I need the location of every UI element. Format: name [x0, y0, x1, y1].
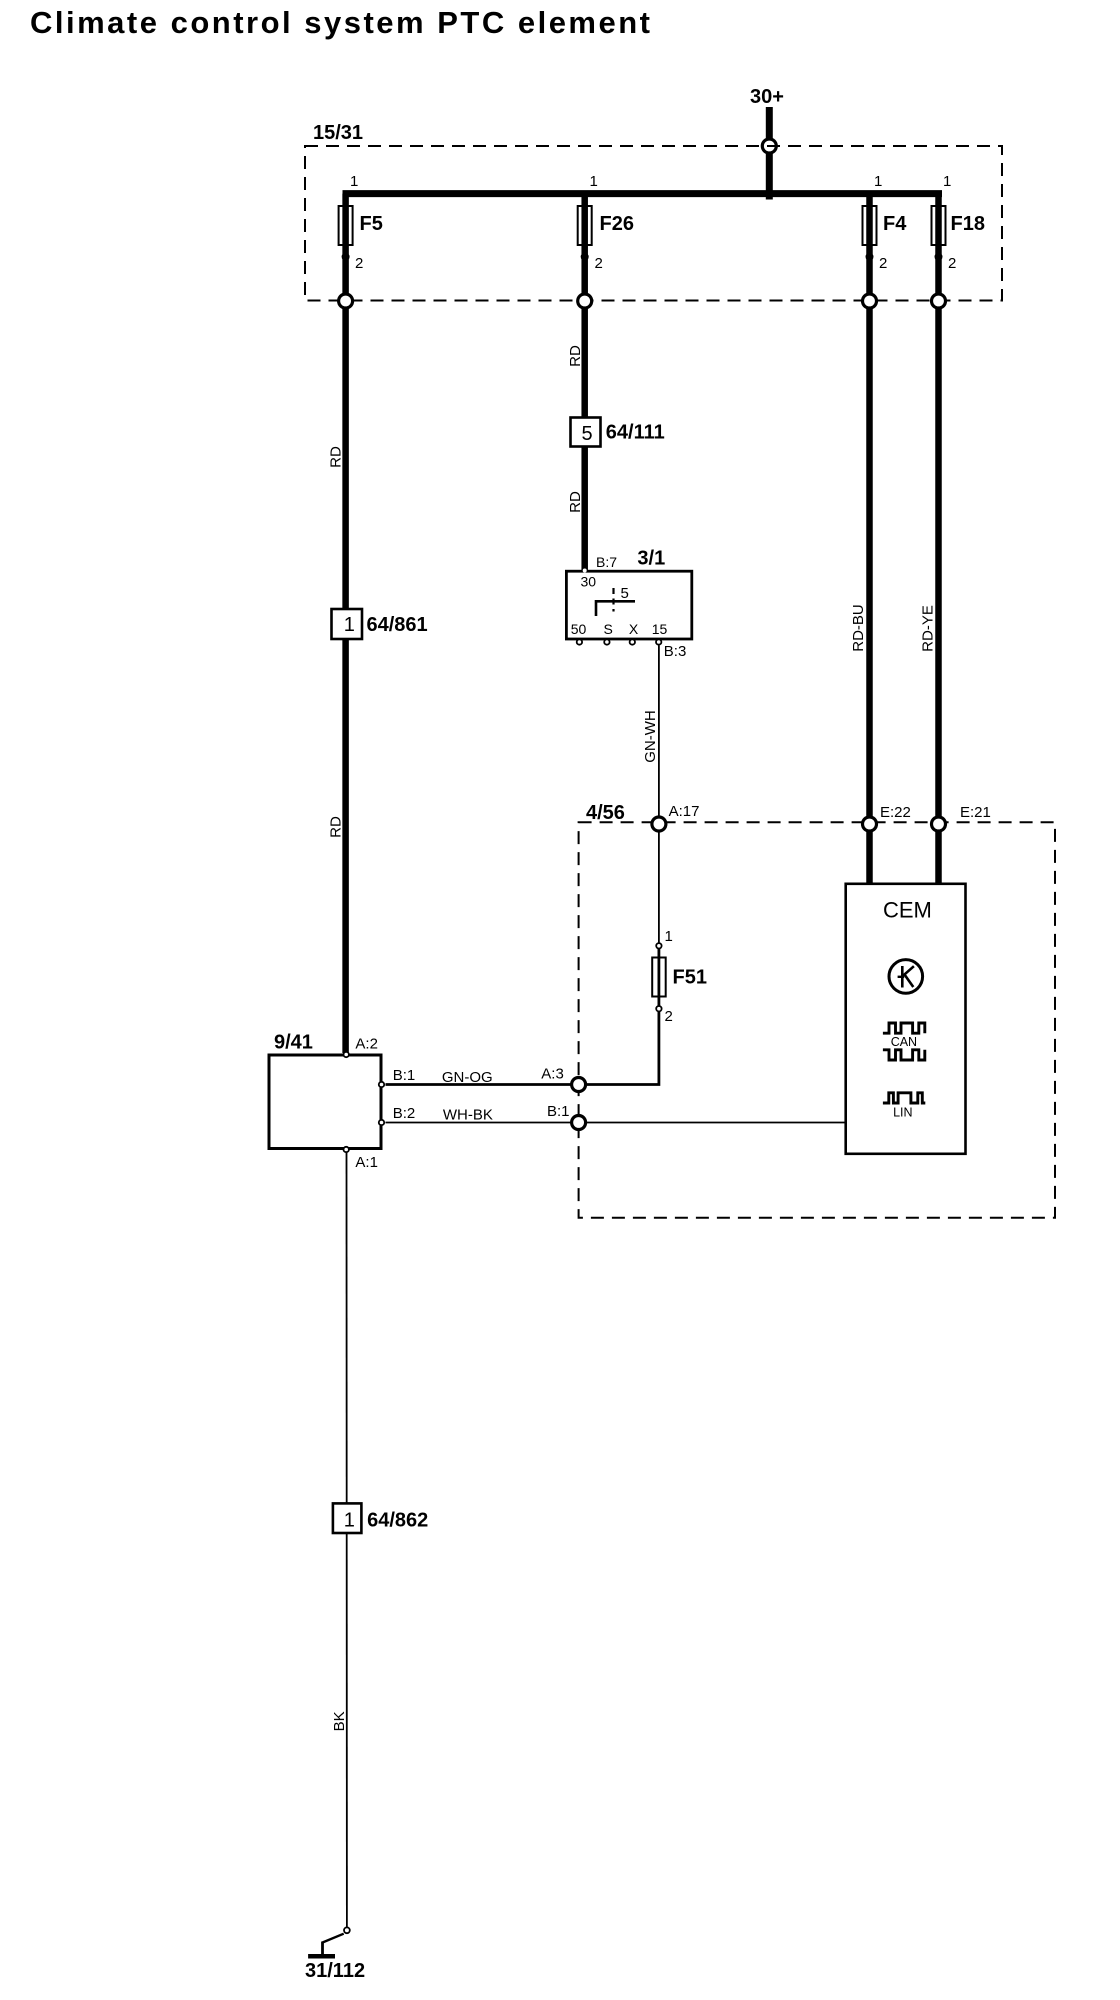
node A:3: [572, 1078, 586, 1092]
wire GN-WH from relay pin 15: [658, 646, 660, 944]
ground 31/112: [305, 1927, 365, 1982]
node F4 connector: [863, 294, 877, 308]
pin 1 F51: [656, 943, 661, 948]
fuse F5: [339, 206, 353, 245]
icon CAN bus: [883, 1023, 925, 1033]
pin S: [604, 639, 609, 644]
svg-text:2: 2: [355, 255, 363, 272]
wire F4 branch RD-BU: [866, 194, 873, 886]
wire F18 branch RD-YE: [935, 194, 942, 886]
svg-text:E:21: E:21: [960, 804, 991, 821]
svg-text:B:7: B:7: [596, 554, 617, 570]
icon LIN bus: [883, 1093, 925, 1103]
node B:1 CEM: [572, 1116, 586, 1130]
wire GN-OG: [386, 1083, 579, 1086]
splice 64/111: [571, 418, 601, 447]
relay contact symbol: [596, 601, 635, 616]
svg-text:CEM: CEM: [883, 898, 932, 923]
svg-text:A:17: A:17: [669, 803, 700, 820]
svg-text:64/861: 64/861: [367, 614, 428, 636]
svg-text:9/41: 9/41: [274, 1032, 313, 1054]
svg-text:F18: F18: [951, 213, 985, 235]
svg-text:RD: RD: [328, 816, 345, 838]
node E:22: [863, 817, 877, 831]
svg-text:RD-YE: RD-YE: [920, 605, 937, 652]
connector box 4/56 dashed: [579, 822, 1055, 1218]
fuse F51: [652, 958, 666, 997]
svg-text:1: 1: [943, 173, 951, 190]
icon K-line: [889, 960, 923, 994]
svg-text:E:22: E:22: [880, 804, 911, 821]
node 30+ junction: [762, 139, 776, 153]
svg-text:50: 50: [571, 621, 587, 637]
splice 64/862: [333, 1503, 362, 1533]
svg-text:RD: RD: [328, 446, 345, 468]
pin 2 F26: [581, 253, 589, 261]
svg-text:1: 1: [344, 1510, 355, 1532]
node F26 connector: [578, 294, 592, 308]
svg-text:2: 2: [665, 1008, 673, 1025]
wire BK ground branch: [346, 1152, 348, 1928]
pin 15: [656, 639, 661, 644]
svg-text:RD: RD: [567, 491, 584, 513]
svg-text:F26: F26: [600, 213, 634, 235]
svg-text:2: 2: [879, 255, 887, 272]
svg-text:F51: F51: [673, 967, 707, 989]
svg-text:1: 1: [590, 173, 598, 190]
svg-text:2: 2: [595, 255, 603, 272]
svg-text:S: S: [604, 621, 613, 637]
svg-text:Climate control system PTC ele: Climate control system PTC element: [30, 5, 650, 40]
svg-text:2: 2: [948, 255, 956, 272]
svg-text:5: 5: [581, 423, 592, 445]
svg-text:A:3: A:3: [541, 1066, 564, 1083]
svg-text:3/1: 3/1: [637, 548, 665, 570]
splice 64/861: [332, 609, 363, 639]
svg-text:30: 30: [581, 574, 597, 590]
wire B:1 to CEM: [586, 1122, 846, 1124]
svg-text:F5: F5: [360, 213, 383, 235]
pin B:1: [379, 1082, 384, 1087]
wire F26 branch RD: [581, 194, 588, 571]
svg-text:BK: BK: [331, 1711, 348, 1731]
wire F5 branch RD: [342, 194, 349, 1053]
svg-text:5: 5: [621, 585, 629, 602]
svg-text:B:1: B:1: [547, 1103, 570, 1120]
svg-text:15: 15: [652, 621, 668, 637]
ecu 9/41 PTC element: [269, 1055, 381, 1149]
pin 2 F5: [342, 253, 350, 261]
svg-text:1: 1: [665, 928, 673, 945]
svg-text:1: 1: [874, 173, 882, 190]
svg-text:1: 1: [350, 173, 358, 190]
relay 3/1 box: [566, 571, 691, 639]
svg-text:GN-OG: GN-OG: [442, 1069, 493, 1086]
fuse F26: [578, 206, 592, 245]
fusebox 15/31 dashed box: [305, 146, 1002, 301]
svg-text:RD: RD: [567, 345, 584, 367]
svg-text:GN-WH: GN-WH: [642, 710, 659, 763]
pin 2 F18: [935, 253, 943, 261]
ecu CEM: [846, 884, 966, 1154]
wire 30+ feed: [766, 107, 773, 200]
svg-text:64/111: 64/111: [606, 422, 665, 444]
svg-text:A:1: A:1: [355, 1154, 378, 1171]
svg-text:64/862: 64/862: [367, 1510, 428, 1532]
svg-text:B:2: B:2: [393, 1105, 416, 1122]
svg-text:LIN: LIN: [893, 1106, 912, 1120]
svg-text:B:1: B:1: [393, 1067, 416, 1084]
fuse F18: [932, 206, 946, 245]
ecu CEM box: [846, 884, 966, 1154]
svg-text:4/56: 4/56: [586, 802, 625, 824]
svg-text:31/112: 31/112: [305, 1960, 365, 1982]
svg-text:RD-BU: RD-BU: [850, 604, 867, 652]
svg-text:15/31: 15/31: [313, 122, 363, 144]
wire F51 to A:3: [585, 943, 659, 1085]
svg-text:CAN: CAN: [891, 1035, 917, 1049]
pin 50: [577, 639, 582, 644]
node F18 connector: [932, 294, 946, 308]
pin A:1: [344, 1147, 349, 1152]
svg-text:A:2: A:2: [355, 1036, 378, 1053]
svg-text:B:3: B:3: [664, 643, 687, 660]
pin X: [630, 639, 635, 644]
node F5 connector: [339, 294, 353, 308]
svg-text:30+: 30+: [750, 86, 784, 108]
relay 3/1: [566, 548, 691, 661]
svg-text:F4: F4: [883, 213, 907, 235]
fuse F4: [863, 206, 877, 245]
pin 2 F51: [656, 1006, 661, 1011]
pin A:2: [344, 1052, 349, 1057]
wire WH-BK: [386, 1122, 579, 1124]
svg-text:WH-BK: WH-BK: [443, 1107, 493, 1124]
svg-text:X: X: [629, 621, 639, 637]
node A:17: [652, 817, 666, 831]
node E:21: [932, 817, 946, 831]
wire bus bar: [343, 190, 943, 197]
pin B:2: [379, 1120, 384, 1125]
svg-text:1: 1: [344, 614, 355, 636]
pin 2 F4: [866, 253, 874, 261]
